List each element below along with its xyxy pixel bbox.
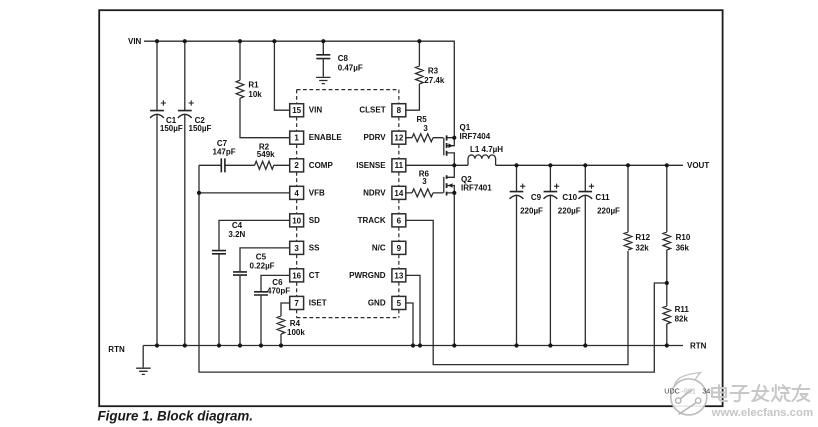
svg-text:470pF: 470pF [267,287,290,296]
svg-text:N/C: N/C [372,243,386,252]
svg-text:82k: 82k [675,315,689,324]
svg-text:150µF: 150µF [160,124,183,133]
svg-text:CLSET: CLSET [359,106,385,115]
svg-text:R3: R3 [428,67,439,76]
svg-text:IRF7404: IRF7404 [460,132,491,141]
svg-text:0.22µF: 0.22µF [250,261,275,270]
svg-text:14: 14 [394,189,403,198]
svg-text:COMP: COMP [309,161,334,170]
svg-text:R5: R5 [417,115,428,124]
svg-text:3: 3 [294,244,299,253]
svg-text:3: 3 [423,124,428,133]
svg-text:R12: R12 [635,233,650,242]
svg-text:RTN: RTN [690,342,707,351]
svg-text:L1 4.7µH: L1 4.7µH [470,145,503,154]
svg-text:C4: C4 [232,221,243,230]
svg-text:SD: SD [309,216,320,225]
svg-text:Q1: Q1 [460,123,471,132]
svg-text:R11: R11 [675,305,690,314]
svg-text:C5: C5 [256,253,267,262]
svg-text:13: 13 [394,271,403,280]
svg-text:9: 9 [397,244,402,253]
svg-text:TRACK: TRACK [358,216,386,225]
svg-text:34: 34 [702,386,710,395]
svg-text:16: 16 [292,271,301,280]
svg-text:10: 10 [292,216,301,225]
svg-text:100k: 100k [287,328,305,337]
svg-text:C6: C6 [272,278,283,287]
svg-text:7: 7 [294,299,299,308]
svg-text:Figure 1. Block diagram.: Figure 1. Block diagram. [98,409,254,424]
svg-text:NDRV: NDRV [363,188,386,197]
svg-text:147pF: 147pF [213,148,236,157]
svg-text:36k: 36k [676,243,690,252]
svg-text:1: 1 [294,134,299,143]
svg-text:15: 15 [292,106,301,115]
svg-text:www.elecfans.com: www.elecfans.com [711,407,814,419]
svg-text:GND: GND [368,299,386,308]
svg-text:R10: R10 [676,233,691,242]
svg-text:3.2N: 3.2N [228,230,245,239]
svg-text:549k: 549k [257,150,275,159]
svg-text:32k: 32k [635,243,649,252]
svg-text:R4: R4 [290,319,301,328]
svg-text:0.47µF: 0.47µF [338,64,363,73]
svg-text:12: 12 [394,134,403,143]
svg-text:3: 3 [422,177,427,186]
svg-text:UDC: UDC [664,387,680,396]
svg-text:220µF: 220µF [597,206,620,215]
svg-text:VFB: VFB [309,188,325,197]
svg-text:27.4k: 27.4k [424,76,445,85]
svg-text:C11: C11 [595,193,610,202]
svg-text:8: 8 [397,106,402,115]
svg-text:VOUT: VOUT [687,161,709,170]
svg-text:2: 2 [294,161,299,170]
svg-text:6: 6 [397,216,402,225]
svg-text:-991: -991 [682,387,696,396]
svg-text:VIN: VIN [128,37,142,46]
svg-text:VIN: VIN [309,106,323,115]
svg-text:11: 11 [395,161,404,170]
svg-text:ISENSE: ISENSE [356,161,386,170]
svg-text:SS: SS [309,243,320,252]
svg-text:220µF: 220µF [520,206,543,215]
svg-text:220µF: 220µF [558,206,581,215]
svg-text:IRF7401: IRF7401 [461,184,492,193]
svg-text:CT: CT [309,271,320,280]
svg-text:PWRGND: PWRGND [349,271,386,280]
svg-text:5: 5 [397,299,402,308]
svg-text:150µF: 150µF [189,124,212,133]
svg-text:PDRV: PDRV [364,133,387,142]
svg-text:C9: C9 [531,193,542,202]
svg-text:4: 4 [294,189,299,198]
svg-text:10k: 10k [248,90,262,99]
svg-text:ISET: ISET [309,299,327,308]
svg-text:R1: R1 [248,81,259,90]
svg-text:ENABLE: ENABLE [309,133,343,142]
svg-text:C8: C8 [338,54,349,63]
svg-text:RTN: RTN [108,345,125,354]
svg-text:C10: C10 [562,193,577,202]
